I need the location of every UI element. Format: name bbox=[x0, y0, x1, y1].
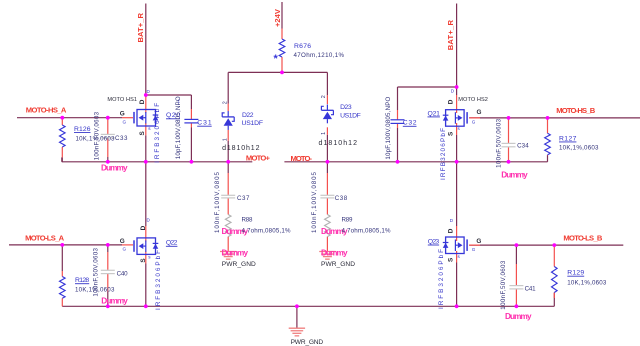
svg-text:C32: C32 bbox=[403, 120, 417, 127]
svg-text:Q21: Q21 bbox=[428, 110, 441, 117]
svg-text:C34: C34 bbox=[517, 143, 529, 150]
svg-text:S: S bbox=[447, 131, 454, 136]
svg-text:G: G bbox=[477, 109, 482, 116]
svg-text:R128: R128 bbox=[75, 277, 89, 284]
svg-text:Dummy: Dummy bbox=[505, 312, 532, 321]
svg-text:1: 1 bbox=[321, 132, 327, 135]
svg-text:MOTO-LS_A: MOTO-LS_A bbox=[25, 234, 65, 243]
svg-text:MOTO HS2: MOTO HS2 bbox=[458, 97, 488, 103]
svg-text:C41: C41 bbox=[525, 286, 537, 293]
svg-text:D: D bbox=[451, 89, 455, 94]
svg-text:D23: D23 bbox=[340, 104, 352, 111]
svg-text:IRFB3206PbF: IRFB3206PbF bbox=[154, 103, 161, 163]
svg-text:Dummy: Dummy bbox=[101, 296, 128, 305]
svg-text:G: G bbox=[123, 119, 127, 124]
svg-text:G: G bbox=[123, 247, 127, 252]
svg-text:2: 2 bbox=[222, 101, 228, 104]
svg-text:IRFB3206PbF: IRFB3206PbF bbox=[440, 128, 447, 180]
svg-text:IRFB3206PbF: IRFB3206PbF bbox=[438, 249, 445, 309]
svg-text:s: s bbox=[148, 126, 151, 131]
svg-text:R129: R129 bbox=[567, 270, 584, 277]
svg-text:R126: R126 bbox=[74, 126, 91, 133]
svg-text:C37: C37 bbox=[237, 195, 250, 202]
svg-text:D: D bbox=[139, 99, 146, 104]
svg-text:MOTO-LS_B: MOTO-LS_B bbox=[563, 234, 603, 243]
svg-text:D22: D22 bbox=[242, 112, 254, 119]
svg-text:Dummy: Dummy bbox=[222, 248, 249, 257]
svg-text:S: S bbox=[140, 258, 147, 263]
svg-text:R89: R89 bbox=[342, 216, 354, 223]
svg-text:100nF,100V,0805: 100nF,100V,0805 bbox=[311, 171, 318, 233]
svg-text:US1DF: US1DF bbox=[242, 120, 264, 127]
svg-text:10pF,100V,0805,NPO: 10pF,100V,0805,NPO bbox=[175, 96, 182, 159]
svg-text:PWR_GND: PWR_GND bbox=[321, 261, 355, 268]
svg-text:MOTO-HS_B: MOTO-HS_B bbox=[556, 106, 596, 115]
svg-text:S: S bbox=[139, 131, 146, 136]
svg-text:100nF,100V,0805: 100nF,100V,0805 bbox=[214, 171, 221, 233]
svg-text:10pF,100V,0805,NPO: 10pF,100V,0805,NPO bbox=[385, 96, 392, 159]
svg-text:G: G bbox=[472, 120, 476, 125]
svg-text:D: D bbox=[147, 218, 151, 223]
svg-text:C40: C40 bbox=[117, 271, 129, 278]
svg-text:G: G bbox=[472, 247, 476, 252]
svg-text:PWR_GND: PWR_GND bbox=[222, 261, 256, 268]
svg-text:C33: C33 bbox=[115, 135, 128, 142]
svg-text:R676: R676 bbox=[294, 43, 311, 50]
svg-text:R127: R127 bbox=[559, 135, 577, 142]
svg-text:4.7ohm,0805,1%: 4.7ohm,0805,1% bbox=[342, 227, 391, 234]
svg-text:Q22: Q22 bbox=[166, 240, 178, 247]
svg-text:s: s bbox=[148, 255, 151, 260]
svg-text:D: D bbox=[140, 225, 147, 230]
svg-text:Dummy: Dummy bbox=[101, 164, 128, 173]
svg-text:D: D bbox=[450, 218, 454, 223]
svg-text:+24V: +24V bbox=[273, 8, 282, 27]
svg-text:D: D bbox=[147, 89, 151, 94]
svg-text:BAT+_R: BAT+_R bbox=[446, 19, 455, 50]
svg-text:100nF,50V,0603: 100nF,50V,0603 bbox=[93, 111, 100, 160]
svg-text:MOTO HS1: MOTO HS1 bbox=[107, 97, 137, 103]
svg-text:d1810h12: d1810h12 bbox=[319, 140, 358, 147]
svg-text:2: 2 bbox=[321, 95, 327, 98]
svg-text:MOTO-: MOTO- bbox=[291, 154, 313, 163]
svg-text:*: * bbox=[274, 53, 279, 65]
svg-text:C31: C31 bbox=[197, 120, 212, 127]
svg-text:100nF,50V,0603: 100nF,50V,0603 bbox=[93, 248, 100, 297]
svg-text:C38: C38 bbox=[335, 195, 348, 202]
svg-text:100nF,50V,0603: 100nF,50V,0603 bbox=[500, 260, 507, 310]
svg-text:s: s bbox=[458, 254, 461, 259]
svg-text:4.7ohm,0805,1%: 4.7ohm,0805,1% bbox=[242, 227, 291, 234]
svg-text:BAT+_R: BAT+_R bbox=[136, 12, 145, 42]
svg-text:G: G bbox=[476, 238, 481, 245]
svg-text:47Ohm,1210,1%: 47Ohm,1210,1% bbox=[294, 52, 345, 59]
svg-text:Dummy: Dummy bbox=[321, 248, 348, 257]
svg-text:d1810h12: d1810h12 bbox=[222, 145, 259, 152]
svg-text:10K,1%,0603: 10K,1%,0603 bbox=[559, 145, 599, 152]
svg-text:PWR_GND: PWR_GND bbox=[291, 339, 324, 346]
svg-text:G: G bbox=[120, 110, 125, 117]
svg-text:US1DF: US1DF bbox=[340, 113, 361, 120]
svg-text:100nF,50V,0603: 100nF,50V,0603 bbox=[495, 118, 502, 168]
svg-text:MOTO-HS_A: MOTO-HS_A bbox=[26, 106, 67, 115]
svg-text:D: D bbox=[447, 99, 454, 104]
svg-text:S: S bbox=[447, 257, 454, 262]
svg-text:R88: R88 bbox=[242, 216, 254, 223]
svg-text:G: G bbox=[120, 238, 125, 245]
svg-text:1: 1 bbox=[222, 138, 228, 141]
svg-text:10K,1%,0603: 10K,1%,0603 bbox=[567, 280, 607, 287]
svg-text:MOTO+: MOTO+ bbox=[246, 154, 271, 163]
svg-text:Dummy: Dummy bbox=[501, 170, 528, 179]
svg-text:Q23: Q23 bbox=[428, 238, 440, 245]
svg-text:D: D bbox=[447, 228, 454, 233]
svg-text:s: s bbox=[458, 126, 461, 131]
svg-text:IRFB3206PbF: IRFB3206PbF bbox=[155, 250, 162, 310]
